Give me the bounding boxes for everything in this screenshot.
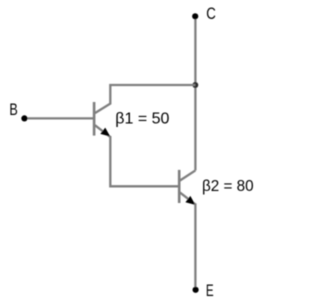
transistor Q1 emitter diagonal — [95, 125, 110, 137]
wire: Q1 emitter to Q2 base — [110, 136, 178, 186]
wire: Q1 collector lead (diagonal, vertical, horizontal to junction) — [95, 85, 195, 113]
transistor Q2 emitter diagonal — [180, 193, 195, 205]
transistor Q1 emitter arrow — [101, 128, 109, 136]
transistor Q2 collector diagonal — [180, 170, 195, 180]
transistor Q1 base bar — [93, 102, 96, 136]
svg-text:E: E — [206, 282, 214, 300]
terminal C dot — [192, 13, 198, 19]
transistor Q2 base bar — [178, 170, 181, 203]
svg-text:β1 = 50: β1 = 50 — [115, 111, 169, 128]
node: junction of Q1 collector with rail — [192, 82, 198, 88]
svg-text:C: C — [206, 5, 216, 23]
wire: Q2 emitter lead down to terminal E — [194, 203, 196, 290]
transistor Q2 emitter arrow — [186, 197, 194, 205]
wire: base lead from terminal B to Q1 — [26, 117, 93, 119]
svg-text:B: B — [9, 101, 17, 119]
svg-text:β2 = 80: β2 = 80 — [202, 178, 254, 195]
terminal E dot — [193, 287, 199, 293]
wire: collector rail from terminal C down to Q2 collector corner — [194, 16, 196, 170]
terminal B dot — [21, 115, 27, 121]
